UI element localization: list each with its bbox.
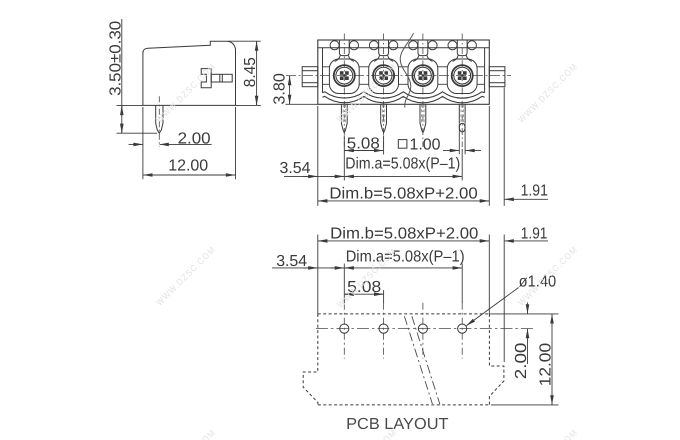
terminal unit 2: screw center mark: [382, 74, 385, 77]
front view: pin 4 pointed tip (oval): [459, 123, 465, 132]
front view: bridge lines between units (lower): [323, 83, 330, 85]
terminal unit 2: vertical centerline: [383, 34, 385, 148]
terminal unit 3: screw inner circle: [415, 67, 432, 84]
terminal unit 2: left top boss: [369, 41, 378, 50]
svg-text:Dim.a=5.08x(P–1): Dim.a=5.08x(P–1): [345, 156, 460, 173]
terminal unit 3: right top boss: [428, 41, 437, 50]
dimension 8.45: bottom extension line: [236, 104, 261, 106]
dimension 5.08 (front): dimension line: [345, 150, 384, 152]
svg-text:12.00: 12.00: [168, 158, 208, 175]
dimension 3.50±0.30: extension line at body bottom: [117, 104, 143, 106]
dimension 3.80: dimension line with arrows: [289, 76, 291, 104]
dimension Dim.b (pcb): left extension line: [317, 235, 319, 314]
dimension 5.08 (pcb): extension line: [383, 290, 385, 303]
dimension 1.91 (pcb): extension line: [503, 235, 505, 363]
terminal unit 4: housing pocket outline: [447, 59, 477, 94]
svg-text:1.00: 1.00: [410, 136, 441, 153]
pcb layout: hole 2 vertical centerline: [383, 303, 385, 359]
side view: clamp screw shaft: [211, 74, 232, 82]
terminal unit 1: screw inner circle: [336, 67, 353, 84]
terminal unit 1: neck flare: [335, 56, 340, 62]
dimension Dim.a (pcb): dimension line with arrows: [345, 267, 462, 269]
pcb layout: hole 1 vertical centerline: [343, 303, 345, 359]
dimension 12.00 (pcb): top extension line: [534, 313, 559, 315]
side view: pin centerline: [158, 96, 160, 146]
terminal unit 4: left top boss: [448, 41, 457, 50]
dimension Dim.a (front): dimension line with arrows: [345, 175, 462, 177]
dimension 8.45: top extension line: [228, 40, 261, 42]
terminal unit 1: top latch tab: [339, 40, 349, 56]
dimension 5.08 (front): extension lines: [343, 136, 345, 181]
terminal unit 4: neck flare: [453, 56, 458, 62]
dimension 2.00 (pcb): top extension line: [489, 313, 534, 315]
dimension 12.00 (pcb): bottom extension line: [491, 404, 559, 406]
dimension 3.54 (front): dimension line: [284, 175, 344, 177]
dimension Dim.a (pcb): extension lines: [343, 264, 345, 304]
svg-text:3.54: 3.54: [276, 253, 307, 270]
svg-text:1.91: 1.91: [521, 182, 548, 199]
svg-text:Dim.a=5.08x(P–1): Dim.a=5.08x(P–1): [346, 249, 465, 266]
terminal unit 2: neck flare: [374, 56, 379, 62]
front view: pin 2 inner edge lines: [381, 104, 383, 122]
terminal unit 4: vertical centerline: [461, 34, 463, 148]
terminal unit 2: top latch tab: [379, 40, 389, 56]
svg-text:3.50±0.30: 3.50±0.30: [107, 21, 124, 96]
front view: body outer rectangle: [318, 40, 490, 104]
front view: solder pin 4: [458, 104, 460, 123]
dimension 2.00 (pcb): dimension line with arrows: [527, 303, 529, 314]
svg-text:PCB LAYOUT: PCB LAYOUT: [346, 416, 449, 433]
svg-text:1.91: 1.91: [521, 226, 548, 243]
terminal unit 1: screw cross-slot quadrant blocks: [340, 71, 344, 75]
pcb layout: mounting hole 3 (diameter 1.40): [418, 324, 427, 333]
dimension 2.00: left outside arrow: [129, 143, 143, 145]
dimension Dim.b (pcb): dimension line with arrows: [318, 240, 489, 242]
dimension 12.00 (pcb): dimension line with arrows: [551, 314, 553, 404]
side view: solder pin: [156, 105, 163, 133]
dimension 1.91 (front): extension line: [503, 88, 505, 206]
dimension 3.50±0.30: extension line at pin tip: [117, 132, 158, 134]
front view: inner top line: [318, 47, 490, 49]
terminal unit 3: left top boss: [409, 41, 418, 50]
pcb layout: hole 4 vertical centerline: [461, 303, 463, 359]
terminal unit 1: left top boss: [330, 41, 339, 50]
svg-text:Dim.b=5.08xP+2.00: Dim.b=5.08xP+2.00: [330, 226, 478, 243]
terminal unit 4: right top boss: [467, 41, 476, 50]
pcb layout: component outline right side (dashed): [489, 314, 504, 405]
pcb layout: mounting hole 2 (diameter 1.40): [379, 324, 388, 333]
dimension Dim.b (pcb): right extension line: [488, 235, 490, 314]
side view: connector body outline: [143, 41, 236, 105]
svg-text:3.80: 3.80: [272, 73, 289, 105]
dimension 3.54 (pcb): dimension line: [272, 267, 344, 269]
front view: pin 4 edge extension lines for 1.00 dim: [458, 123, 460, 154]
pcb layout: horizontal centerline through holes: [316, 328, 533, 330]
terminal unit 2: screw cross-slot quadrant blocks: [379, 71, 383, 75]
terminal unit 3: screw center mark: [421, 74, 424, 77]
dimension Dim.a (front): right extension line: [461, 149, 463, 180]
front view: right side tab: [489, 67, 505, 87]
dimension Dim.b (front): left extension line: [317, 106, 319, 206]
front view: wavy bottom edge (lower line): [323, 96, 485, 102]
front view: pin 1 inner edge lines: [342, 104, 344, 122]
pcb layout: mounting hole 1 (diameter 1.40): [340, 324, 349, 333]
front view: inner left wall: [322, 48, 324, 93]
dimension 1.00: square symbol: [398, 140, 407, 149]
front view: break squiggle line between poles 2 and 3: [400, 33, 413, 107]
dimension Dim.b (front): dimension line with arrows: [318, 200, 489, 202]
front view: inner right wall: [484, 48, 486, 93]
svg-text:2.00: 2.00: [178, 130, 211, 147]
dimension 8.45: dimension line with arrows: [256, 42, 258, 105]
terminal unit 4: screw outer circle: [452, 65, 473, 86]
front view: bridge lines between units (upper): [323, 66, 330, 68]
front view: solder pin 3: [420, 104, 426, 132]
terminal unit 2: screw inner circle: [375, 67, 392, 84]
terminal unit 2: right top boss: [389, 41, 398, 50]
terminal unit 3: top latch tab: [418, 40, 428, 56]
dimension diameter 1.40: leader line with arrow: [467, 288, 519, 326]
pcb layout: break diagonal line 1: [404, 316, 432, 404]
front view: solder pin 2: [381, 104, 387, 132]
front view: wavy bottom edge (upper line): [323, 92, 485, 98]
front view: left side tab: [302, 67, 318, 87]
terminal unit 1: vertical centerline: [343, 34, 345, 148]
front view: bottom edge extension to left: [286, 103, 318, 105]
dimension 12.00: dimension line with arrows: [143, 174, 235, 176]
dimension 5.08 (pcb): dimension line with arrows: [345, 293, 384, 295]
front view: pin 4 inner edge lines: [460, 104, 462, 122]
terminal unit 4: top latch tab: [457, 40, 467, 56]
side view: wire clamp screw symbol head: [201, 69, 211, 88]
pcb layout: component outline top edge (dashed): [318, 313, 490, 315]
svg-text:5.08: 5.08: [347, 135, 380, 152]
pcb layout: mounting hole 4 (diameter 1.40): [458, 324, 467, 333]
terminal unit 1: screw center mark: [343, 74, 346, 77]
svg-text:Dim.b=5.08xP+2.00: Dim.b=5.08xP+2.00: [329, 185, 477, 202]
pcb layout: hole 3 vertical centerline: [422, 303, 424, 359]
svg-text:8.45: 8.45: [242, 57, 259, 87]
svg-text:12.00: 12.00: [538, 343, 555, 387]
terminal unit 2: screw outer circle: [373, 65, 394, 86]
terminal unit 4: screw cross-slot quadrant blocks: [458, 71, 462, 75]
terminal unit 3: housing pocket outline: [408, 59, 438, 94]
dimension 12.00: left extension line: [142, 107, 144, 179]
terminal unit 3: screw outer circle: [412, 65, 433, 86]
front view: solder pin 1: [341, 104, 347, 132]
terminal unit 3: screw cross-slot quadrant blocks: [419, 71, 423, 75]
pcb layout: break diagonal line 2: [412, 316, 440, 404]
terminal unit 1: housing pocket outline: [329, 59, 359, 94]
terminal unit 1: screw outer circle: [334, 65, 355, 86]
pcb layout: component outline bottom edge (dashed): [318, 404, 490, 406]
dimension 1.91 (front): dimension line with arrow: [505, 198, 548, 200]
terminal unit 3: vertical centerline: [422, 34, 424, 148]
front view: pin 3 inner edge lines: [421, 104, 423, 122]
terminal unit 4: screw center mark: [461, 74, 464, 77]
terminal unit 3: neck flare: [413, 56, 418, 62]
svg-text:2.00: 2.00: [513, 342, 530, 379]
dimension 12.00: right extension line: [235, 107, 237, 179]
dimension 3.50±0.30: dimension line with arrows: [121, 19, 123, 133]
terminal unit 4: screw inner circle: [454, 67, 471, 84]
terminal unit 1: right top boss: [350, 41, 359, 50]
terminal unit 2: housing pocket outline: [369, 59, 399, 94]
dimension Dim.b (front): right extension line: [488, 106, 490, 206]
svg-text:3.54: 3.54: [280, 160, 311, 177]
pcb layout: component outline left side (dashed): [303, 314, 318, 405]
front view: horizontal centerline through screw row: [286, 75, 511, 77]
dimension 1.91 (pcb): dimension line with arrow: [505, 240, 548, 242]
dimension 1.00: dimension line and outside arrows: [443, 150, 459, 152]
dimension 2.00: dimension line from pin center: [160, 143, 212, 145]
